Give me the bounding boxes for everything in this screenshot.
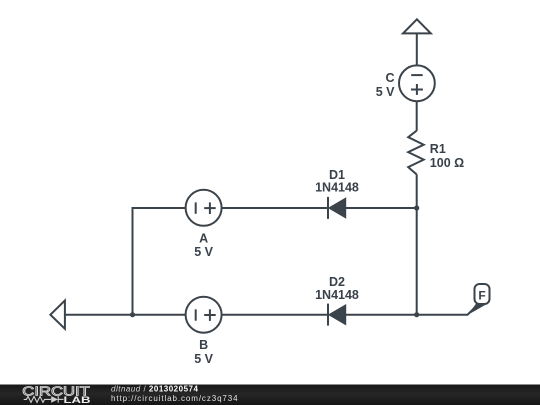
svg-text:1N4148: 1N4148	[315, 288, 359, 302]
wire corner to source A	[133, 208, 186, 315]
svg-text:5 V: 5 V	[194, 245, 213, 259]
svg-text:R1: R1	[430, 142, 446, 156]
svg-text:C: C	[385, 71, 394, 85]
voltage source B	[186, 297, 222, 333]
svg-text:5 V: 5 V	[194, 352, 213, 366]
svg-text:D2: D2	[329, 275, 345, 289]
wire diode D2 to node N2	[345, 314, 417, 316]
footer bar	[0, 385, 540, 405]
svg-text:LAB: LAB	[64, 395, 91, 405]
diode D2	[328, 304, 345, 326]
junction node N2	[414, 312, 419, 317]
voltage source C	[399, 65, 435, 101]
wire diode D1 to node N1	[345, 207, 417, 209]
svg-text:dltnaud / 2013020574: dltnaud / 2013020574	[111, 384, 198, 393]
resistor R1	[408, 131, 424, 175]
wire source C to resistor R1	[416, 101, 418, 131]
svg-text:5 V: 5 V	[376, 85, 395, 99]
wire resistor R1 to node N1	[416, 174, 418, 208]
wire node N1 to node N2 (vertical)	[416, 208, 418, 315]
junction node N3	[130, 312, 135, 317]
wire source A to diode D1	[222, 207, 328, 209]
wire node N2 to flag F	[417, 304, 479, 315]
svg-text:1N4148: 1N4148	[315, 180, 359, 194]
diode D1	[328, 197, 345, 219]
svg-text:A: A	[199, 231, 208, 245]
svg-text:http://circuitlab.com/cz3q734: http://circuitlab.com/cz3q734	[111, 394, 238, 403]
flag F	[468, 284, 490, 315]
svg-text:F: F	[478, 288, 485, 302]
port P1 triangle (top, pointing up)	[403, 19, 431, 33]
junction node N1	[414, 205, 419, 210]
wire source B to diode D2	[222, 314, 328, 316]
footer logo squiggle (resistor and diode)	[24, 396, 64, 403]
port P2 triangle (left, pointing left)	[50, 301, 65, 329]
wire left port to source B	[65, 314, 186, 316]
voltage source A	[186, 190, 222, 226]
wire top port to source C	[416, 33, 418, 65]
svg-text:100 Ω: 100 Ω	[430, 156, 464, 170]
svg-text:B: B	[199, 338, 208, 352]
